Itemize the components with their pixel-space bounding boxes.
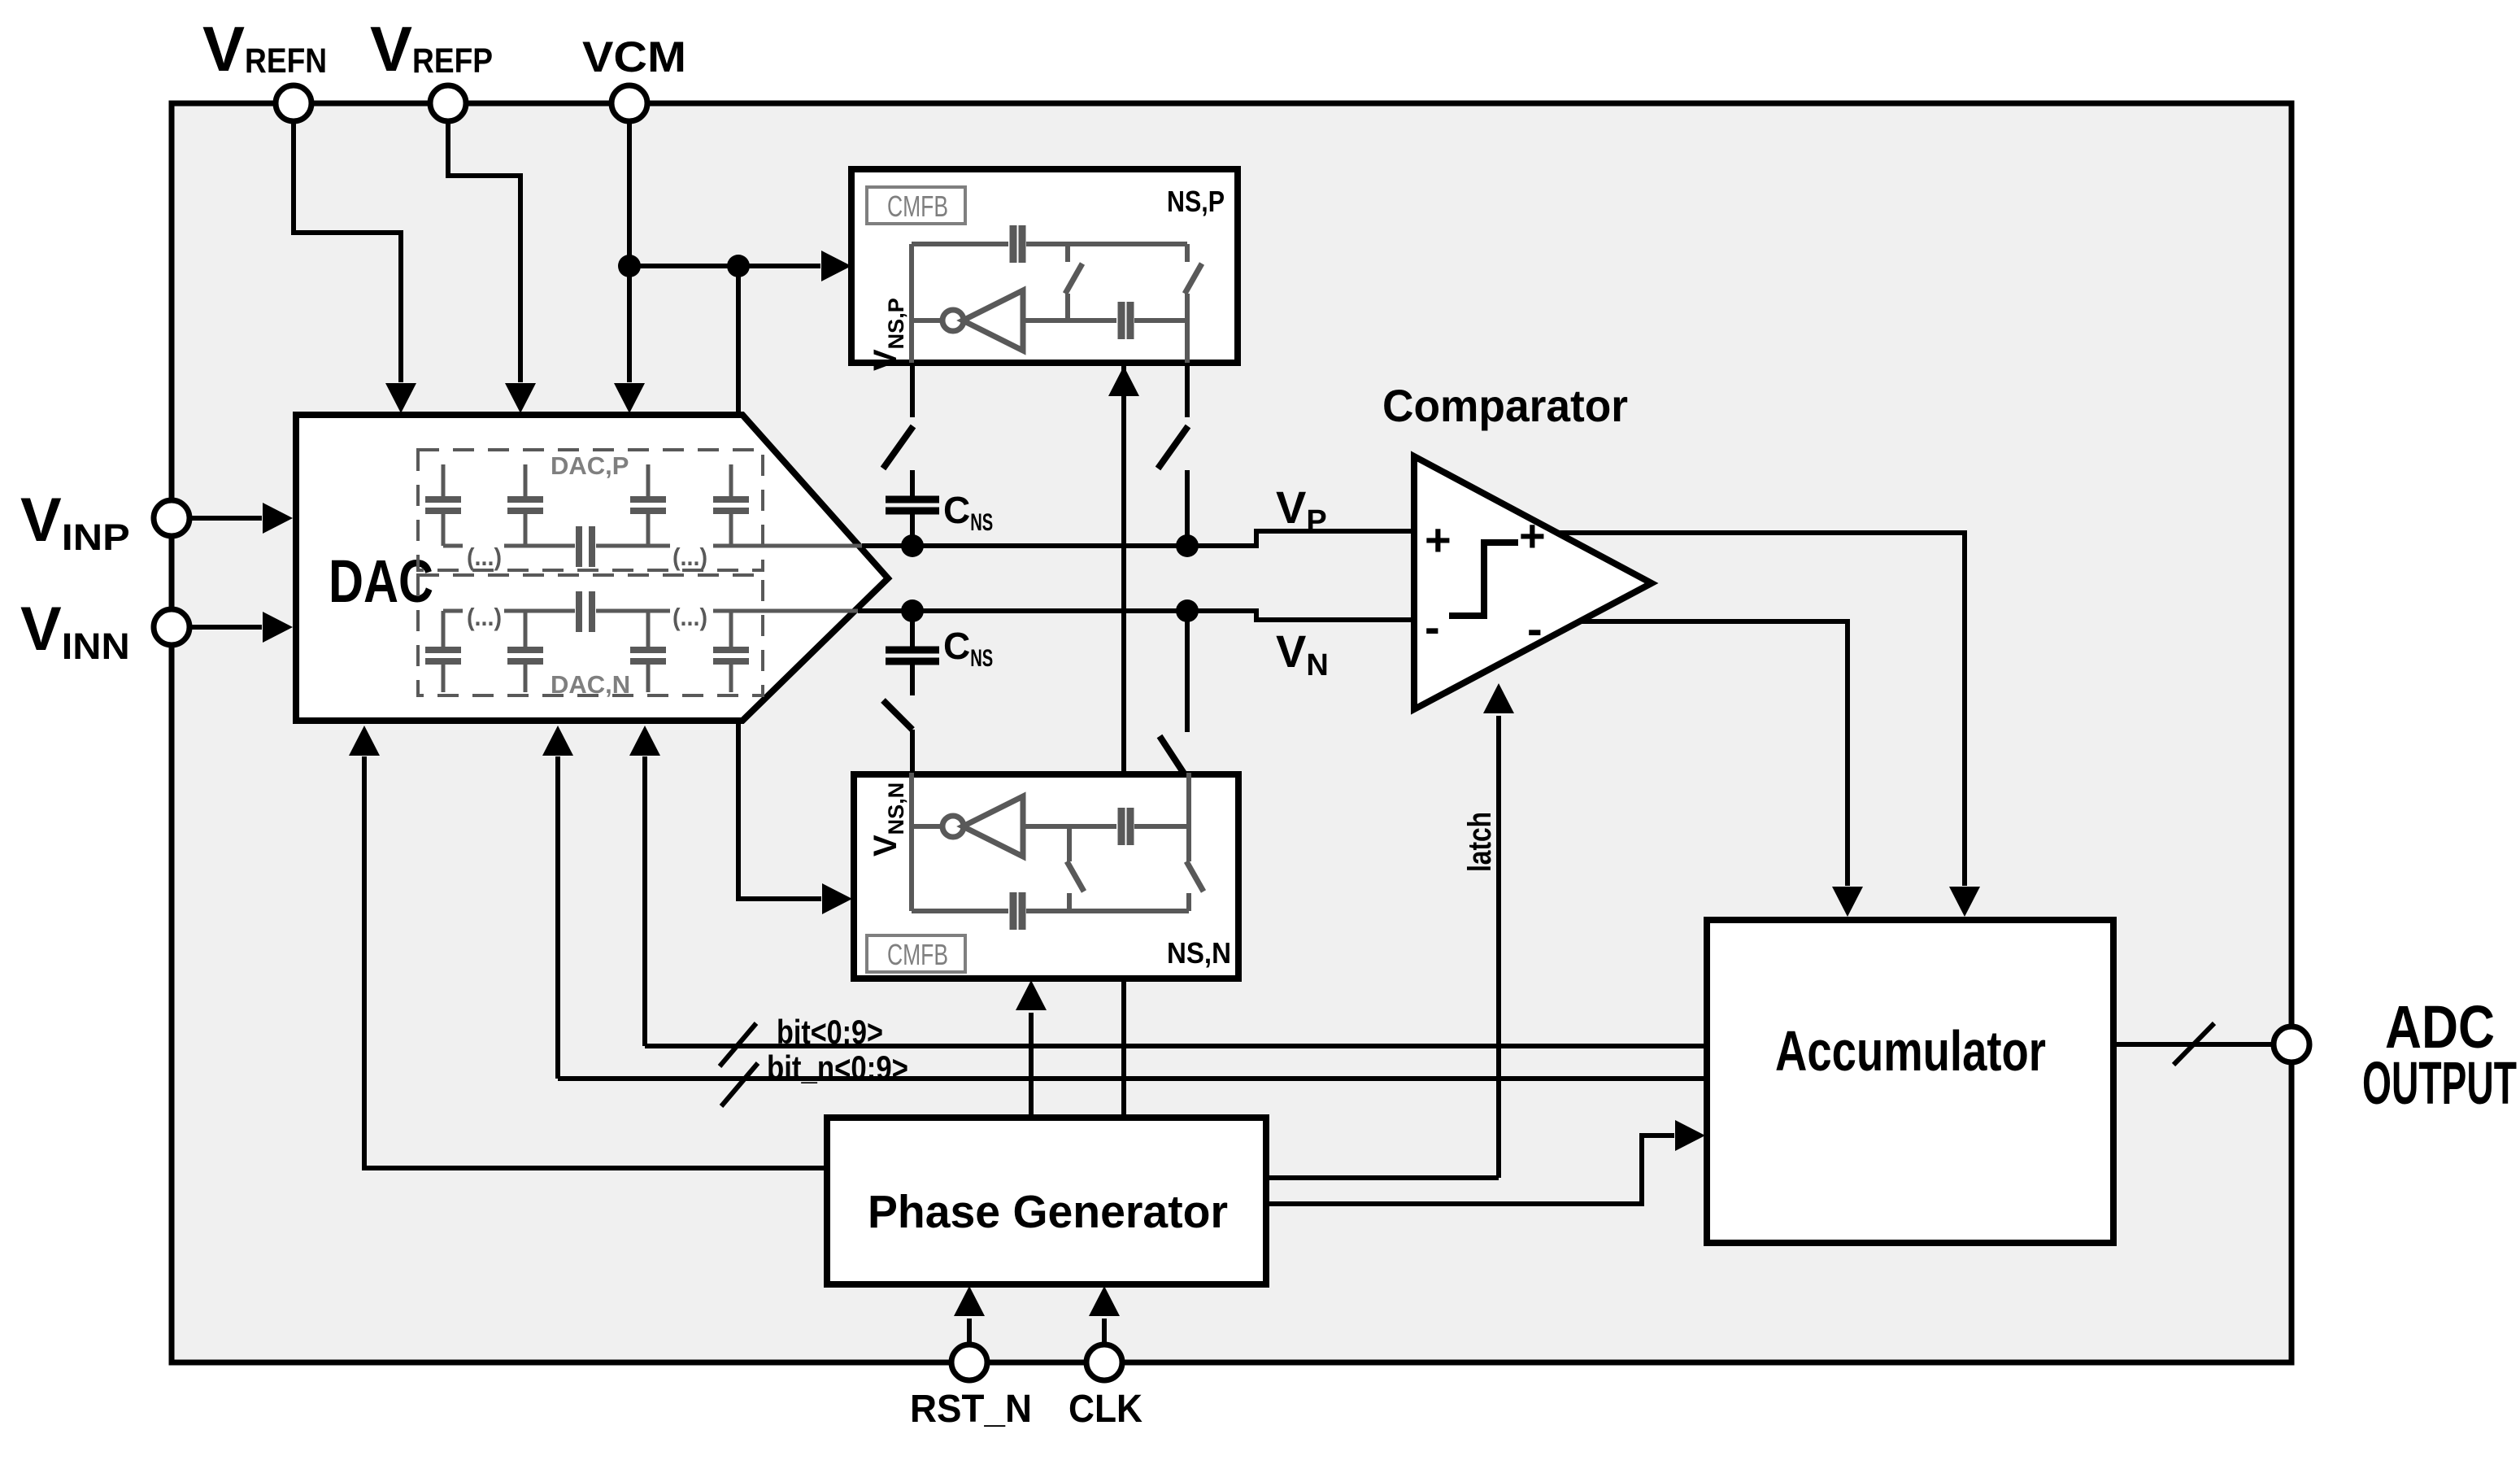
- pin VINN: [154, 609, 189, 645]
- switch S2 bottom: [1185, 611, 1190, 732]
- switch NSN S2: [1186, 893, 1191, 911]
- capacitor NSN C2: [1118, 808, 1125, 845]
- wire VREFP to DAC: [448, 121, 520, 382]
- svg-text:bit<0:9>: bit<0:9>: [777, 1013, 883, 1051]
- wire DAC,N rail: [443, 609, 463, 613]
- capacitor NSN C1: [1010, 892, 1017, 930]
- wire VREFN to DAC: [294, 121, 401, 382]
- inverter NSN: [912, 824, 943, 829]
- node VN junction C_NS: [901, 599, 924, 622]
- svg-text:CMFB: CMFB: [887, 190, 948, 223]
- svg-text:CMFB: CMFB: [887, 938, 948, 971]
- node VCM junction 2: [727, 255, 750, 277]
- wire bit_n bus: [558, 1076, 1707, 1081]
- svg-text:CLK: CLK: [1068, 1388, 1142, 1431]
- wire latch: [1496, 716, 1501, 1178]
- svg-text:RST_N: RST_N: [910, 1388, 1032, 1431]
- wire NSP left vertical: [909, 244, 914, 363]
- capacitor DAC,P C2: [524, 464, 528, 499]
- svg-text:(...): (...): [467, 543, 502, 571]
- wire RST_N: [967, 1319, 972, 1345]
- svg-text:VCM: VCM: [582, 33, 686, 81]
- svg-text:(...): (...): [672, 603, 707, 631]
- svg-text:DAC,P: DAC,P: [551, 451, 629, 480]
- svg-text:+: +: [1425, 514, 1452, 565]
- svg-text:+: +: [1519, 510, 1546, 561]
- wire phase to NSP: [1108, 366, 1139, 396]
- svg-text:-: -: [1425, 601, 1440, 652]
- capacitor DAC,P C3: [646, 464, 651, 499]
- capacitor C_NS N: [910, 611, 915, 650]
- pin RST_N: [951, 1345, 987, 1380]
- capacitor DAC,N C1: [442, 611, 446, 650]
- wire NSN left vertical: [909, 773, 914, 911]
- svg-text:Comparator: Comparator: [1382, 380, 1628, 431]
- svg-text:VREFP: VREFP: [370, 13, 493, 85]
- wire VCM to NSP: [629, 264, 820, 268]
- svg-text:-: -: [1527, 603, 1543, 654]
- capacitor DAC,N C4: [729, 611, 733, 650]
- pin ADC OUTPUT: [2274, 1027, 2309, 1062]
- bus slash bit_n: [721, 1063, 758, 1106]
- wire VINP to DAC: [189, 516, 262, 521]
- svg-text:VINN: VINN: [20, 595, 130, 667]
- switch S2 top: [1185, 364, 1190, 417]
- block Accumulator: [1707, 920, 2113, 1243]
- wire comparator out plus: [1557, 533, 1965, 886]
- wire NSN bottom rail: [912, 909, 1008, 913]
- node VCM junction: [618, 255, 641, 277]
- svg-text:latch: latch: [1462, 812, 1498, 872]
- inverter NSP: [912, 318, 943, 323]
- box CMFB P: [867, 187, 965, 224]
- svg-text:bit_n<0:9>: bit_n<0:9>: [767, 1048, 908, 1087]
- wire NSN right vertical: [1186, 773, 1191, 826]
- switch NSN S1: [1067, 893, 1072, 911]
- capacitor NSP C1: [1010, 225, 1017, 263]
- node VP junction C_NS: [901, 534, 924, 557]
- capacitor DAC,P C4: [729, 464, 733, 499]
- svg-text:Accumulator: Accumulator: [1775, 1019, 2046, 1083]
- pin CLK: [1086, 1345, 1122, 1380]
- svg-text:VINP: VINP: [20, 486, 130, 558]
- svg-text:NS,N: NS,N: [1167, 936, 1231, 970]
- block Phase Generator: [827, 1118, 1266, 1284]
- capacitor NSP C2: [1118, 302, 1125, 339]
- wire phase to latch: [1266, 1175, 1499, 1180]
- wire VP rail: [862, 543, 1259, 548]
- wire comparator out minus: [1580, 621, 1848, 886]
- switch NSP S2: [1185, 244, 1190, 262]
- block DAC pentagon: [296, 415, 888, 721]
- wire VN rail: [858, 608, 1259, 613]
- comparator step symbol: [1449, 543, 1518, 616]
- wire VCM to DAC: [627, 121, 632, 382]
- wire CLK: [1102, 1319, 1107, 1345]
- switch S1 bottom: [883, 700, 912, 730]
- wire phase to accumulator: [1266, 1136, 1674, 1204]
- wire DAC corner to NSN: [738, 719, 821, 899]
- node VN junction switch: [1176, 599, 1199, 622]
- wire ADC output: [2112, 1042, 2274, 1047]
- capacitor DAC,N C3: [646, 611, 651, 650]
- svg-text:OUTPUT: OUTPUT: [2362, 1049, 2517, 1117]
- bus slash ADC output: [2174, 1023, 2214, 1065]
- bus slash bit: [720, 1023, 756, 1066]
- svg-text:DAC,N: DAC,N: [551, 670, 630, 699]
- wire phase to NSN: [1029, 1013, 1034, 1116]
- svg-text:(...): (...): [672, 543, 707, 571]
- wire NSP inv rail: [1023, 318, 1116, 323]
- pin VINP: [154, 500, 189, 536]
- switch NSP S1: [1065, 244, 1070, 262]
- svg-text:NS,P: NS,P: [1167, 185, 1225, 218]
- switch S1 top: [910, 364, 915, 417]
- wire DAC,P rail: [443, 544, 463, 548]
- capacitor DAC,N C2: [524, 611, 528, 650]
- wire VCM down to DAC corner: [736, 266, 741, 416]
- svg-text:Phase Generator: Phase Generator: [868, 1186, 1228, 1238]
- capacitor DAC,N series: [576, 591, 582, 632]
- box CMFB N: [867, 935, 965, 972]
- pin VREFP: [430, 85, 466, 121]
- wire NSN inv rail: [1023, 824, 1116, 829]
- wire NSP top rail: [912, 242, 1008, 246]
- svg-text:(...): (...): [467, 603, 502, 631]
- pin VREFN: [276, 85, 311, 121]
- capacitor C_NS P: [910, 470, 915, 499]
- block NS,P box: [851, 169, 1238, 363]
- capacitor DAC,P C1: [442, 464, 446, 499]
- wire phase to DAC: [364, 756, 827, 1168]
- svg-text:VREFN: VREFN: [202, 13, 327, 85]
- node VP junction switch: [1176, 534, 1199, 557]
- comparator U1 triangle: [1414, 456, 1652, 709]
- wire VINN to DAC: [189, 625, 262, 630]
- chip boundary box: [172, 103, 2292, 1362]
- pin VCM: [612, 85, 647, 121]
- wire bit bus: [645, 1044, 1707, 1048]
- wire NSP right vertical: [1185, 320, 1190, 363]
- dashed box DAC,N: [418, 575, 763, 695]
- capacitor DAC,P series: [576, 526, 582, 567]
- dashed box DAC,P: [418, 450, 763, 570]
- block NS,N box: [854, 774, 1238, 979]
